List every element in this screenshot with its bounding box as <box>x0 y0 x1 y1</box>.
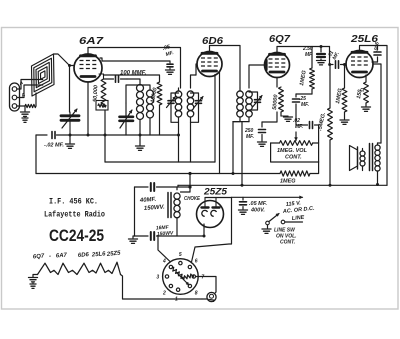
IF2 secondary coil <box>246 91 253 98</box>
loop antenna <box>32 54 55 96</box>
svg-text:Lafayette Radio: Lafayette Radio <box>44 210 105 220</box>
6Q7 cathode lead <box>276 78 278 88</box>
node 6A7 cathode <box>87 134 90 137</box>
svg-text:1MEG. VOL: 1MEG. VOL <box>277 148 308 154</box>
pilot lamp <box>207 292 216 301</box>
capacitor 16MF <box>150 232 152 240</box>
wire choke top node <box>177 185 179 186</box>
wire padder to bus <box>104 110 106 135</box>
6A7 plate lead <box>88 48 181 89</box>
svg-text:CHOKE: CHOKE <box>184 196 200 202</box>
svg-text:7: 7 <box>201 275 204 281</box>
rail R1 tail <box>310 162 319 174</box>
potentiometer tap arrow <box>295 132 297 140</box>
resistor 15,000 <box>159 78 161 82</box>
svg-text:2: 2 <box>162 290 166 296</box>
svg-text:1: 1 <box>175 297 178 303</box>
line switch <box>266 221 270 225</box>
antenna terminal strip <box>10 83 20 111</box>
tube 6A7 <box>74 54 102 82</box>
socket internal element 2 <box>181 273 194 280</box>
node 25L6 grid <box>343 63 346 66</box>
wire 16MF left <box>135 235 149 237</box>
wire 15000 top <box>104 75 160 78</box>
heater right drop <box>121 275 203 300</box>
socket pin 7 <box>192 275 195 278</box>
padder trimmer box <box>96 101 108 111</box>
socket pin 6 <box>188 265 191 268</box>
tuning capacitor C1 <box>61 114 79 117</box>
ground below switch <box>267 225 269 228</box>
svg-text:400V.: 400V. <box>250 208 265 214</box>
tube 25L6 <box>346 51 373 78</box>
left drop wire <box>35 135 37 174</box>
svg-text:6A7: 6A7 <box>79 35 104 47</box>
wire terminal 3 to hank <box>17 105 25 107</box>
ground below .05MF <box>166 69 175 71</box>
resistor 1MEG (plate load) <box>311 47 313 69</box>
socket pin 4 <box>169 265 172 268</box>
25Z5 plate rail <box>205 197 216 199</box>
IF2 bottom join <box>233 121 249 123</box>
choke leads <box>176 187 178 190</box>
potentiometer wire right <box>313 142 319 144</box>
socket circle <box>163 259 199 295</box>
socket wire diagonal <box>192 198 232 263</box>
ground below 250MF <box>258 141 267 143</box>
svg-text:.05 MF.: .05 MF. <box>249 201 268 207</box>
IF1 trimmer right <box>196 100 202 102</box>
svg-text:6Q7: 6Q7 <box>269 33 291 45</box>
capacitor 100MMF <box>104 78 114 80</box>
gnd bus y135 right <box>57 134 179 136</box>
wire terminal A1 to loop <box>17 85 43 98</box>
resistor 150 ohm (cathode) <box>365 75 367 82</box>
svg-text:6A7: 6A7 <box>56 252 68 259</box>
svg-text:I.F. 456 KC.: I.F. 456 KC. <box>49 197 98 207</box>
node R2 x330 <box>329 184 332 187</box>
choke coil <box>174 193 180 199</box>
tuning cap C2 arrow <box>120 110 132 128</box>
capacitor -.02MF <box>51 132 53 139</box>
IF1 primary coil <box>175 91 182 98</box>
capacitor 2.50MF (decoupling) <box>320 47 322 53</box>
25Z5 plate 1 <box>204 198 206 208</box>
socket pin 3 <box>165 275 168 278</box>
svg-text:6: 6 <box>195 259 198 265</box>
25Z5 cathode 2 <box>211 210 217 216</box>
line terminal 2 <box>281 220 285 224</box>
node R1 x190 <box>188 172 191 175</box>
node AVC on B- rail <box>241 184 244 187</box>
wire screen 25L6 <box>373 64 381 143</box>
ground on bus <box>136 145 145 147</box>
socket internal arrow <box>176 272 189 285</box>
capacitor .25MF <box>296 93 312 95</box>
tube 25Z5 envelope <box>197 201 224 228</box>
6Q7 plate lead <box>277 47 330 49</box>
ground below 1MEG <box>340 119 349 121</box>
AC line rail <box>216 197 232 199</box>
tuning cap C1 arrow <box>62 109 77 128</box>
node B+ start <box>203 235 206 238</box>
resistor 1MEG (AVC in rail) <box>280 171 310 176</box>
svg-text:40MF.: 40MF. <box>139 197 157 204</box>
wire left filter drop <box>134 187 136 236</box>
svg-text:MF.: MF. <box>246 134 254 140</box>
wire OT primary top <box>377 143 379 145</box>
svg-text:8: 8 <box>195 290 198 296</box>
wire IF2 to R1 <box>232 122 234 174</box>
wire loop bottom to hank <box>35 93 37 106</box>
filter node wire right <box>157 186 191 188</box>
node IF1 on bus <box>177 134 180 137</box>
capacitor .05MF 400V <box>242 197 244 200</box>
wire pin7 to lamp <box>196 277 217 293</box>
capacitor .02MF <box>309 122 311 129</box>
capacitor .01MF (coupling) <box>335 61 337 69</box>
B- wire <box>157 235 205 237</box>
wire IF2 bottom down (AVC) <box>241 122 243 186</box>
socket pin 2 <box>169 284 172 287</box>
ground below .05MF 400V <box>239 209 248 211</box>
rail R2 (B- line) <box>178 184 387 186</box>
6D6 plate lead <box>210 46 241 89</box>
hank coil <box>25 104 36 107</box>
gnd bus y135 <box>36 134 47 136</box>
svg-text:1MEG: 1MEG <box>280 179 296 185</box>
node padder on bus <box>104 134 107 137</box>
svg-text:-: - <box>49 254 51 260</box>
potentiometer 1MEG VOL CONT <box>280 141 313 146</box>
wire 25Z5 cathode out <box>203 224 205 236</box>
svg-text:3: 3 <box>156 275 159 281</box>
capacitor 250MF (cathode bypass) <box>261 122 263 127</box>
capacitor .006 (tone) <box>377 46 379 51</box>
svg-text:CC24-25: CC24-25 <box>49 226 104 245</box>
ground B- <box>133 236 135 238</box>
node grid 6A7 <box>68 64 71 67</box>
node osc ground <box>139 134 142 137</box>
25Z5 cathode 1 <box>202 210 208 216</box>
rail R0 (osc/IF return) <box>105 161 215 163</box>
socket wire top <box>158 236 170 262</box>
socket pin 8 <box>188 284 191 287</box>
capacitor 40MF <box>150 183 152 191</box>
6D6 cathode lead <box>214 75 216 163</box>
heater string resistance <box>38 262 121 274</box>
oscillator coil primary <box>137 85 144 92</box>
resistor 1MEG (25L6 grid) <box>344 65 346 89</box>
volume control box <box>271 143 319 162</box>
wire osc sec top <box>126 85 150 103</box>
ground below 150 ohm <box>362 106 371 108</box>
speaker voice coil <box>360 151 365 156</box>
svg-text:50,000: 50,000 <box>93 85 100 102</box>
IF1 trimmer left <box>168 100 174 102</box>
output transformer secondary <box>375 145 380 150</box>
node OT bottom <box>376 183 379 186</box>
socket pin 1 <box>176 288 179 291</box>
svg-text:-.02 MF.: -.02 MF. <box>44 143 64 149</box>
6Q7 diode plate <box>265 60 267 70</box>
wire hank down <box>24 106 26 111</box>
6A7 screen wire <box>100 58 170 61</box>
6A7 cathode lead <box>87 82 89 135</box>
wire speaker frame down <box>362 166 364 171</box>
tube 6D6 <box>197 52 222 77</box>
wire osc coil down to bus <box>139 120 141 146</box>
ground heater left <box>33 275 38 278</box>
line rail arrow <box>232 196 303 198</box>
svg-text:4: 4 <box>162 259 166 265</box>
socket internal element 1 <box>171 267 184 279</box>
node C1 ground <box>69 134 72 137</box>
wire choke top <box>181 174 191 193</box>
resistor 50,000 (6Q7 cathode) <box>279 87 284 112</box>
wire lamp to heater string <box>202 298 207 300</box>
ground below 50,000 <box>284 116 293 118</box>
ground below tuning node <box>69 135 71 143</box>
wire terminal A2 to loop <box>17 80 43 90</box>
capacitor .05MF <box>169 61 171 63</box>
node 6Q7 plate rail <box>320 45 323 48</box>
tube 6Q7 <box>265 53 290 78</box>
potentiometer 1MEG wire left <box>271 142 280 144</box>
svg-text:MF.: MF. <box>301 102 309 108</box>
output transformer core <box>369 144 371 171</box>
6D6 screen lead <box>219 72 221 174</box>
IF2 trimmer <box>255 99 261 101</box>
ground below terminals <box>21 111 30 113</box>
node .01MF junction <box>328 63 331 66</box>
node IF2 on R1 <box>232 172 235 175</box>
rail R1 (B-) <box>36 173 280 175</box>
25Z5 plate 2 <box>215 198 217 208</box>
speaker cone <box>350 146 358 171</box>
wire .02MF down to box <box>318 125 320 162</box>
6D6 grid wire <box>196 64 197 75</box>
wire 6Q7 plate to .01MF <box>330 47 334 65</box>
wire tap to .02MF <box>296 124 308 126</box>
resistor .5MEG <box>329 65 331 109</box>
wire OT bottom <box>377 171 379 185</box>
svg-text:6D6: 6D6 <box>78 252 90 259</box>
wire node down to tuning cap <box>69 66 71 113</box>
IF2 primary coil <box>237 91 244 98</box>
filter node wire <box>135 186 149 188</box>
ground below 2.50MF <box>317 60 326 62</box>
choke core <box>167 193 169 218</box>
25L6 plate top wire <box>360 46 388 186</box>
svg-text:6Q7: 6Q7 <box>33 253 45 260</box>
svg-text:CONT.: CONT. <box>285 155 302 161</box>
node choke top <box>188 185 191 188</box>
resistor 50,000 (6A7 grid) <box>99 73 104 75</box>
svg-text:CONT.: CONT. <box>280 240 295 246</box>
svg-text:25Z5: 25Z5 <box>203 187 228 198</box>
oscillator coil secondary <box>147 90 154 97</box>
oscillator tuning capacitor C2 <box>120 116 134 119</box>
IF1 secondary coil <box>187 91 194 98</box>
svg-text:5: 5 <box>179 252 182 258</box>
wire loop top to grid node <box>54 54 75 66</box>
wire bus to R0 <box>104 135 106 162</box>
socket pin 5 <box>179 261 182 264</box>
